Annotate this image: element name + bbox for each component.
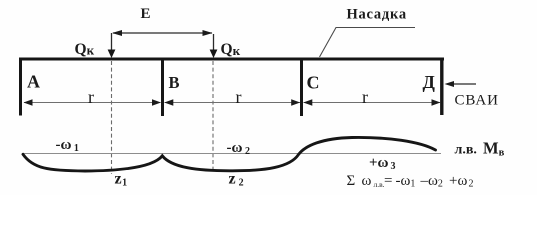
pile D vertical <box>440 58 443 116</box>
svg-text:Е: Е <box>141 6 151 22</box>
svg-text:z2: z2 <box>229 171 244 189</box>
svg-text:В: В <box>169 73 180 92</box>
svg-text:Σωл.в.=-ω1–ω2+ω2: Σωл.в.=-ω1–ω2+ω2 <box>347 173 474 190</box>
pile A vertical <box>19 58 22 116</box>
arrow to piles (SVAI) <box>450 83 476 85</box>
svg-text:r: r <box>88 87 94 107</box>
span dimension line A-B <box>24 102 161 104</box>
svg-text:Д: Д <box>423 72 436 92</box>
influence line baseline <box>22 153 441 155</box>
svg-text:+ω3: +ω3 <box>369 155 396 172</box>
pile B vertical <box>161 58 164 116</box>
dashed projection line 1 <box>111 61 113 174</box>
svg-text:Qк: Qк <box>75 41 95 58</box>
svg-text:r: r <box>362 87 368 107</box>
span dimension line C-D <box>304 102 441 104</box>
svg-text:Насадка: Насадка <box>347 6 407 22</box>
svg-text:Qк: Qк <box>221 41 241 58</box>
influence line curve <box>23 137 436 171</box>
dashed projection line 2 <box>212 61 214 170</box>
svg-text:А: А <box>27 72 40 92</box>
span dimension line B-C <box>165 102 301 104</box>
beam (pile cap) top chord <box>19 58 444 61</box>
svg-text:л.в. Мв: л.в. Мв <box>455 139 505 159</box>
svg-text:z1: z1 <box>115 171 128 189</box>
svg-text:С: С <box>307 73 320 93</box>
svg-text:r: r <box>236 87 242 107</box>
svg-text:СВАИ: СВАИ <box>455 92 499 108</box>
pile C vertical <box>300 58 303 116</box>
load arrow Qk right <box>213 34 215 51</box>
svg-text:-ω2: -ω2 <box>227 140 250 157</box>
load arrow Qk left <box>111 33 113 51</box>
leader line to beam <box>320 28 416 58</box>
dimension arrow E (double headed) <box>113 32 212 34</box>
svg-text:-ω1: -ω1 <box>56 137 79 154</box>
